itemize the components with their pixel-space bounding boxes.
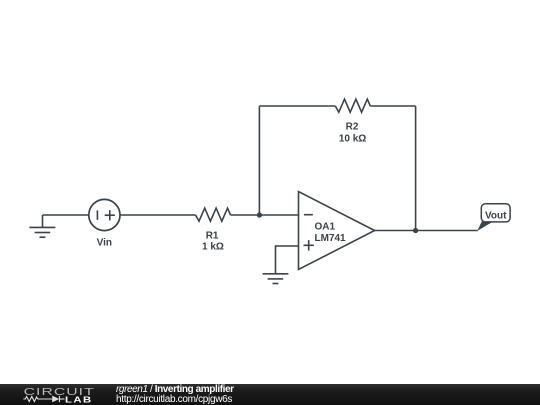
wire Vin to R1 bbox=[120, 214, 196, 216]
svg-text:LM741: LM741 bbox=[315, 233, 347, 244]
svg-text:10 kΩ: 10 kΩ bbox=[339, 133, 366, 144]
footer title text bbox=[116, 385, 234, 405]
wire R2 to feedback right bbox=[370, 105, 415, 107]
svg-text:R1: R1 bbox=[206, 230, 219, 241]
ground GND1 (source ground) bbox=[29, 215, 55, 237]
footer bar bbox=[0, 384, 540, 405]
svg-text:Vout: Vout bbox=[485, 211, 507, 222]
wire junction up to feedback bbox=[258, 106, 260, 215]
net flag Vout bbox=[477, 204, 510, 231]
svg-text:R2: R2 bbox=[346, 122, 359, 133]
resistor R1 bbox=[196, 208, 231, 221]
op-amp OA1 bbox=[299, 192, 375, 270]
wire feedback down to output node bbox=[415, 106, 417, 231]
node junction at inverting input bbox=[257, 212, 262, 217]
svg-text:Vin: Vin bbox=[97, 237, 112, 248]
svg-text:1 kΩ: 1 kΩ bbox=[202, 242, 224, 253]
node junction at output bbox=[413, 228, 418, 233]
CircuitLab logo bbox=[20, 385, 96, 405]
wire GND1 to Vin source bbox=[43, 214, 90, 216]
wire non-inverting input to GND2 bbox=[276, 246, 299, 274]
wire feedback top-left to R2 bbox=[259, 105, 335, 107]
svg-text:LAB: LAB bbox=[65, 396, 93, 405]
wire op-amp output to Vout flag bbox=[375, 230, 478, 232]
svg-text:OA1: OA1 bbox=[315, 221, 336, 232]
voltage source V1 (Vin) bbox=[89, 199, 120, 230]
wire R1 to op-amp inverting input bbox=[231, 214, 299, 216]
ground GND2 (op-amp + input) bbox=[263, 274, 289, 284]
resistor R2 bbox=[335, 99, 370, 112]
